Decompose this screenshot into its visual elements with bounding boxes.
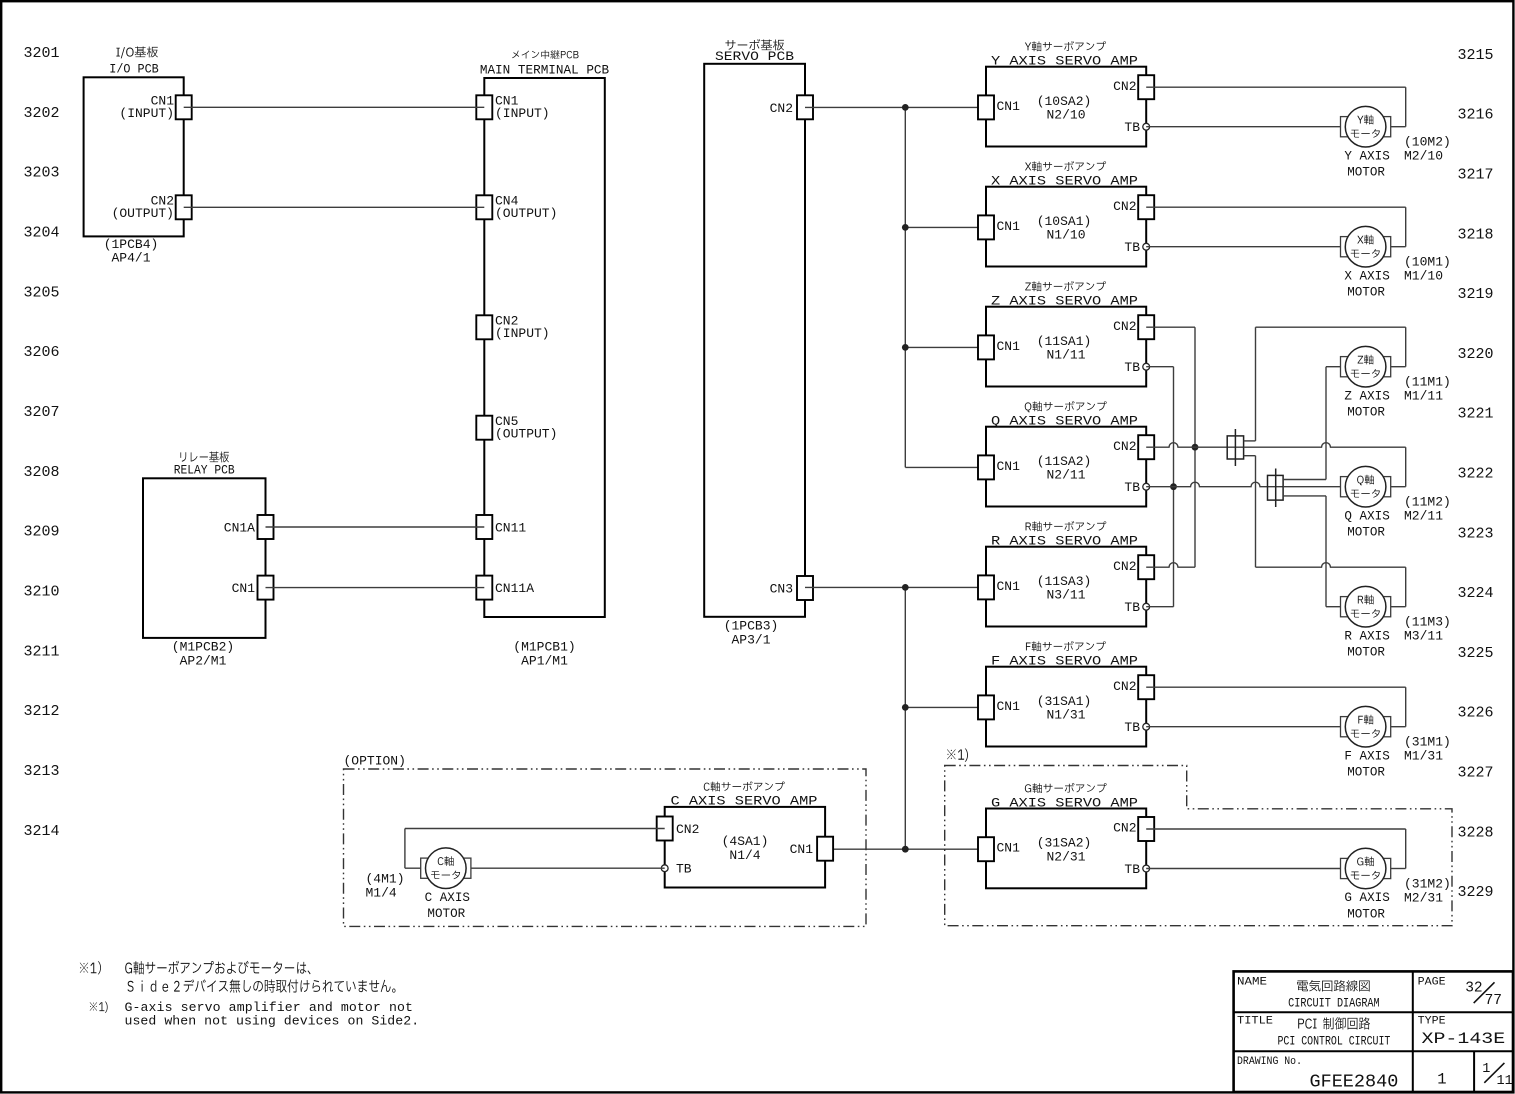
- svg-text:(31SA2): (31SA2): [1037, 836, 1092, 851]
- svg-text:G AXIS: G AXIS: [1344, 891, 1389, 905]
- svg-text:F AXIS: F AXIS: [1344, 749, 1389, 763]
- connector CN1 (Z amp): [978, 335, 1020, 359]
- servo amp F (F AXIS SERVO AMP (31SA1)): [986, 641, 1146, 746]
- svg-text:(11SA3): (11SA3): [1037, 574, 1092, 589]
- svg-text:CN1: CN1: [997, 699, 1021, 714]
- svg-text:3213: 3213: [23, 763, 59, 780]
- svg-text:(10M1): (10M1): [1404, 255, 1451, 270]
- title block DRAWING cell: [1237, 1056, 1398, 1093]
- wire Z CN2 to vertical V2: [1146, 326, 1195, 328]
- svg-text:Z AXIS: Z AXIS: [1344, 389, 1389, 403]
- option dash-dot boundary box: [344, 769, 867, 926]
- svg-text:M3/11: M3/11: [1404, 629, 1443, 644]
- wire Q CN2 continuation to rail: [1244, 443, 1406, 447]
- svg-text:CN1: CN1: [790, 842, 814, 857]
- wire V3 top to rail (Z motor feed): [1256, 326, 1406, 328]
- svg-text:(10SA2): (10SA2): [1037, 94, 1092, 109]
- svg-text:(M1PCB1): (M1PCB1): [513, 640, 575, 655]
- svg-text:XP-143E: XP-143E: [1422, 1030, 1506, 1048]
- svg-text:R AXIS: R AXIS: [1344, 629, 1389, 643]
- connector CN1 (I/O PCB, INPUT): [119, 94, 191, 122]
- wire bus to X amp CN1: [905, 226, 986, 228]
- svg-text:MOTOR: MOTOR: [1347, 766, 1385, 780]
- motor R (R AXIS MOTOR (11M3)): [1341, 586, 1451, 659]
- motor F (F AXIS MOTOR (31M1)): [1341, 706, 1451, 779]
- servo amp Y (Y AXIS SERVO AMP (10SA2)): [986, 41, 1146, 146]
- svg-text:(INPUT): (INPUT): [495, 326, 550, 341]
- svg-text:RELAY PCB: RELAY PCB: [174, 463, 235, 478]
- MAIN TERMINAL PCB block (M1PCB1 AP1/M1): [480, 50, 609, 668]
- wire R CN2 to vertical V2: [1146, 563, 1195, 568]
- svg-text:GFEE2840: GFEE2840: [1309, 1072, 1398, 1093]
- wire V4 to Z motor left: [1326, 366, 1341, 368]
- wire V3 bottom to rail (R motor feed): [1256, 563, 1406, 568]
- wire CP1 top tap to V3: [1244, 440, 1256, 442]
- vertical V4 lower (to R motor left): [1325, 496, 1327, 607]
- svg-text:3221: 3221: [1457, 406, 1493, 423]
- motor X (X AXIS MOTOR (10M1)): [1341, 226, 1451, 299]
- svg-text:G AXIS SERVO AMP: G AXIS SERVO AMP: [991, 795, 1138, 810]
- svg-text:M1/10: M1/10: [1404, 269, 1443, 284]
- svg-text:MAIN TERMINAL PCB: MAIN TERMINAL PCB: [480, 62, 609, 77]
- connector CN1 (MAIN PCB, INPUT): [476, 94, 549, 122]
- title block NAME cell: [1237, 976, 1380, 1010]
- svg-text:(OPTION): (OPTION): [344, 754, 406, 769]
- svg-text:CN3: CN3: [770, 582, 793, 597]
- wire I/O CN2 to MAIN CN4: [184, 206, 485, 208]
- svg-text:3219: 3219: [1457, 286, 1493, 303]
- svg-text:MOTOR: MOTOR: [1347, 406, 1385, 420]
- wire Q TB to connector CP2: [1146, 482, 1283, 487]
- svg-text:3205: 3205: [23, 284, 59, 301]
- wire X TB to X motor (left side): [1146, 246, 1340, 248]
- title block TITLE cell: [1237, 1015, 1390, 1048]
- terminal TB (C amp): [661, 862, 692, 877]
- terminal TB (R amp): [1124, 600, 1149, 615]
- wire F CN2 to F motor (right side): [1146, 687, 1406, 727]
- junction at R CN1 row: [902, 584, 909, 591]
- connector CN2 (I/O PCB, OUTPUT): [112, 194, 192, 222]
- svg-text:C AXIS: C AXIS: [425, 891, 470, 905]
- svg-text:F AXIS SERVO AMP: F AXIS SERVO AMP: [991, 654, 1138, 669]
- svg-text:(4M1): (4M1): [366, 871, 405, 886]
- svg-text:TB: TB: [1124, 120, 1140, 135]
- svg-text:3220: 3220: [1457, 346, 1493, 363]
- terminal TB (Y amp): [1124, 120, 1149, 135]
- svg-text:3222: 3222: [1457, 466, 1493, 483]
- junction V1 at Q TB row: [1170, 483, 1177, 490]
- svg-text:TB: TB: [1124, 480, 1140, 495]
- connector CN11A (MAIN PCB): [476, 576, 534, 600]
- motor Q (Q AXIS MOTOR (11M2)): [1341, 466, 1451, 539]
- wire F TB to F motor (left side): [1146, 726, 1340, 728]
- svg-text:3226: 3226: [1457, 705, 1493, 722]
- title block frame: [1234, 971, 1513, 1092]
- motor Z (Z AXIS MOTOR (11M1)): [1341, 346, 1451, 419]
- svg-text:CIRCUIT DIAGRAM: CIRCUIT DIAGRAM: [1288, 995, 1380, 1010]
- svg-text:CN1: CN1: [997, 841, 1021, 856]
- junction at G CN1 row: [902, 846, 909, 853]
- connector CN2 (G amp): [1113, 817, 1154, 841]
- junction V2 at Q CN2 row: [1192, 444, 1199, 451]
- svg-text:MOTOR: MOTOR: [1347, 286, 1385, 300]
- vertical V3 upper (to Z motor feed): [1255, 327, 1257, 441]
- svg-text:1: 1: [1482, 1062, 1490, 1077]
- svg-text:MOTOR: MOTOR: [1347, 526, 1385, 540]
- wire R TB to vertical V1: [1146, 606, 1173, 608]
- wire Q CN2 to connector CP1: [1146, 443, 1243, 447]
- vertical V4 upper (to Z motor left): [1325, 367, 1327, 480]
- motor C labels: [366, 871, 405, 900]
- svg-text:3202: 3202: [23, 105, 59, 122]
- svg-text:N1/4: N1/4: [729, 848, 760, 863]
- wire Y TB to Y motor (left side): [1146, 126, 1340, 128]
- connector CN4 (MAIN PCB, OUTPUT): [476, 194, 557, 222]
- connector CN2 (SERVO PCB): [770, 95, 813, 119]
- note line 3 (EN): [90, 1000, 413, 1015]
- svg-text:CN11: CN11: [495, 521, 526, 536]
- svg-text:CN2: CN2: [1113, 439, 1136, 454]
- wire C TB to C motor right: [471, 867, 665, 869]
- servo amp X (X AXIS SERVO AMP (10SA1)): [986, 161, 1146, 266]
- svg-text:Y AXIS: Y AXIS: [1344, 149, 1389, 163]
- svg-text:CN2: CN2: [1113, 319, 1136, 334]
- svg-text:(INPUT): (INPUT): [119, 106, 174, 121]
- svg-text:3209: 3209: [23, 524, 59, 541]
- svg-text:N2/10: N2/10: [1046, 108, 1085, 123]
- wire Z TB to vertical V1: [1146, 366, 1173, 368]
- note line 1 (JP): [80, 961, 311, 975]
- svg-text:TITLE: TITLE: [1237, 1015, 1273, 1027]
- wire G TB to G motor (left side): [1146, 868, 1340, 870]
- SERVO PCB block (1PCB3 AP3/1): [704, 39, 805, 647]
- (OPTION) label: [344, 754, 406, 769]
- svg-text:CN1: CN1: [997, 579, 1021, 594]
- drop to Q motor right: [1391, 447, 1406, 487]
- svg-text:11: 11: [1497, 1074, 1513, 1089]
- wire RELAY CN1 to MAIN CN11A: [266, 587, 485, 589]
- svg-text:(10SA1): (10SA1): [1037, 214, 1092, 229]
- svg-text:TB: TB: [1124, 862, 1140, 877]
- bus vertical (servo CN2 feed): [904, 107, 906, 467]
- svg-text:(11SA2): (11SA2): [1037, 454, 1092, 469]
- svg-text:77: 77: [1485, 993, 1502, 1009]
- connector CN2 (F amp): [1113, 675, 1154, 699]
- svg-text:M1/31: M1/31: [1404, 749, 1443, 764]
- svg-text:(OUTPUT): (OUTPUT): [495, 206, 557, 221]
- inline connector CP1: [1227, 429, 1243, 466]
- wire SERVO CN2 to Y amp CN1: [805, 106, 986, 108]
- connector CN1 (RELAY PCB): [232, 576, 274, 600]
- svg-text:AP2/M1: AP2/M1: [180, 653, 227, 668]
- servo amp C (C AXIS SERVO AMP 4SA1): [665, 781, 825, 887]
- svg-text:3229: 3229: [1457, 884, 1493, 901]
- svg-text:TB: TB: [676, 862, 692, 877]
- svg-text:I/O PCB: I/O PCB: [109, 61, 159, 76]
- svg-text:(11M2): (11M2): [1404, 495, 1451, 510]
- svg-text:TB: TB: [1124, 600, 1140, 615]
- connector CN1 (F amp): [978, 695, 1020, 719]
- connector CN1 (C amp): [790, 837, 834, 861]
- svg-text:3214: 3214: [23, 823, 59, 840]
- svg-text:(10M2): (10M2): [1404, 135, 1451, 150]
- svg-text:AP3/1: AP3/1: [731, 632, 770, 647]
- svg-text:CN2: CN2: [770, 101, 793, 116]
- svg-text:(1PCB3): (1PCB3): [724, 619, 779, 634]
- wire bus to F amp CN1: [905, 706, 986, 708]
- connector CN2 (MAIN PCB, INPUT): [476, 314, 549, 342]
- svg-text:(11SA1): (11SA1): [1037, 334, 1092, 349]
- svg-text:32: 32: [1465, 981, 1482, 997]
- connector CN1A (RELAY PCB): [224, 515, 274, 539]
- svg-text:3223: 3223: [1457, 525, 1493, 542]
- svg-text:AP4/1: AP4/1: [111, 251, 150, 266]
- junction at Y CN1 row: [902, 104, 909, 111]
- svg-text:(M1PCB2): (M1PCB2): [172, 640, 234, 655]
- svg-text:CN1A: CN1A: [224, 521, 255, 536]
- svg-text:(1PCB4): (1PCB4): [104, 237, 159, 252]
- svg-text:MOTOR: MOTOR: [1347, 907, 1385, 921]
- wire C amp CN1 to G amp CN1: [825, 848, 986, 850]
- svg-text:X AXIS SERVO AMP: X AXIS SERVO AMP: [991, 174, 1138, 189]
- drop to Z motor right: [1391, 327, 1406, 367]
- svg-text:N2/31: N2/31: [1046, 850, 1085, 865]
- svg-text:M1/4: M1/4: [366, 886, 397, 901]
- junction at F CN1 row: [902, 704, 909, 711]
- svg-text:3227: 3227: [1457, 765, 1493, 782]
- svg-text:3217: 3217: [1457, 167, 1493, 184]
- svg-text:CN1: CN1: [997, 339, 1021, 354]
- svg-text:3206: 3206: [23, 344, 59, 361]
- connector CN2 (Q amp): [1113, 435, 1154, 459]
- svg-text:C AXIS SERVO AMP: C AXIS SERVO AMP: [671, 794, 818, 809]
- svg-text:Q AXIS: Q AXIS: [1344, 509, 1389, 523]
- connector CN2 (X amp): [1113, 195, 1154, 219]
- servo amp Q (Q AXIS SERVO AMP (11SA2)): [986, 401, 1146, 506]
- svg-text:3228: 3228: [1457, 824, 1493, 841]
- connector CN2 (Y amp): [1113, 75, 1154, 99]
- svg-text:(11M1): (11M1): [1404, 375, 1451, 390]
- connector CN1 (R amp): [978, 575, 1020, 599]
- connector CN1 (X amp): [978, 215, 1020, 239]
- svg-text:3216: 3216: [1457, 107, 1493, 124]
- junction at Z CN1 row: [902, 344, 909, 351]
- wire CP1 bottom tap to V3: [1244, 455, 1256, 457]
- svg-text:MOTOR: MOTOR: [1347, 166, 1385, 180]
- terminal TB (F amp): [1124, 720, 1149, 735]
- wire CP2 bottom tap to V4: [1283, 495, 1326, 497]
- svg-text:PAGE: PAGE: [1418, 976, 1446, 988]
- svg-text:(11M3): (11M3): [1404, 615, 1451, 630]
- RELAY PCB block (M1PCB2 AP2/M1): [143, 451, 266, 668]
- svg-text:AP1/M1: AP1/M1: [521, 653, 568, 668]
- svg-text:TB: TB: [1124, 360, 1140, 375]
- svg-text:3224: 3224: [1457, 585, 1493, 602]
- svg-text:M2/10: M2/10: [1404, 149, 1443, 164]
- svg-text:CN1: CN1: [997, 219, 1021, 234]
- svg-text:CN2: CN2: [1113, 821, 1136, 836]
- svg-text:3210: 3210: [23, 584, 59, 601]
- svg-text:3207: 3207: [23, 404, 59, 421]
- svg-text:M2/11: M2/11: [1404, 509, 1443, 524]
- connector CN1 (Q amp): [978, 455, 1020, 479]
- svg-text:1: 1: [1437, 1071, 1446, 1089]
- right margin line numbers 3215-3229: [1457, 47, 1493, 901]
- wire CP2 to Q motor left: [1283, 486, 1340, 488]
- connector CN2 (C amp): [657, 817, 700, 841]
- svg-text:NAME: NAME: [1237, 976, 1267, 988]
- svg-text:used when not using devices on: used when not using devices on Side2.: [125, 1014, 420, 1029]
- svg-text:PCI CONTROL CIRCUIT: PCI CONTROL CIRCUIT: [1277, 1033, 1390, 1048]
- inline connector CP2: [1268, 469, 1284, 508]
- svg-text:CN1: CN1: [997, 99, 1021, 114]
- note mark for G box: [947, 749, 968, 762]
- svg-text:(31M1): (31M1): [1404, 735, 1451, 750]
- wire I/O CN1 to MAIN CN1: [184, 106, 485, 108]
- servo amp Z (Z AXIS SERVO AMP (11SA1)): [986, 281, 1146, 386]
- svg-text:R AXIS SERVO AMP: R AXIS SERVO AMP: [991, 534, 1138, 549]
- wire V4 to R motor left: [1326, 606, 1341, 608]
- svg-text:N3/11: N3/11: [1046, 588, 1085, 603]
- svg-text:Y AXIS SERVO AMP: Y AXIS SERVO AMP: [991, 54, 1138, 69]
- title block sheet number cells: [1437, 1062, 1512, 1089]
- motor Y (Y AXIS MOTOR (10M2)): [1341, 106, 1451, 179]
- wire SERVO CN3 to R amp CN1: [805, 586, 986, 588]
- svg-text:DRAWING No.: DRAWING No.: [1237, 1056, 1302, 1068]
- svg-text:CN2: CN2: [1113, 679, 1136, 694]
- svg-text:3215: 3215: [1457, 47, 1493, 64]
- svg-text:N2/11: N2/11: [1046, 468, 1085, 483]
- svg-text:(OUTPUT): (OUTPUT): [112, 206, 174, 221]
- svg-text:CN1: CN1: [232, 581, 256, 596]
- svg-text:MOTOR: MOTOR: [1347, 646, 1385, 660]
- servo amp G (G AXIS SERVO AMP (31SA2)): [986, 783, 1146, 888]
- svg-text:3211: 3211: [23, 643, 59, 660]
- svg-text:N1/11: N1/11: [1046, 348, 1085, 363]
- wire bus to Z amp CN1: [905, 346, 986, 348]
- I/O PCB block (1PCB4 AP4/1): [84, 46, 184, 265]
- wire G CN2 to G motor (right side): [1146, 829, 1406, 869]
- svg-text:SERVO PCB: SERVO PCB: [715, 49, 794, 64]
- connector CN2 (Z amp): [1113, 315, 1154, 339]
- junction at X CN1 row: [902, 224, 909, 231]
- svg-text:CN2: CN2: [1113, 199, 1136, 214]
- svg-text:3208: 3208: [23, 464, 59, 481]
- svg-text:CN1: CN1: [997, 459, 1021, 474]
- svg-text:Q AXIS SERVO AMP: Q AXIS SERVO AMP: [991, 414, 1138, 429]
- svg-text:Z AXIS SERVO AMP: Z AXIS SERVO AMP: [991, 294, 1138, 309]
- title block TYPE cell: [1418, 1015, 1506, 1048]
- connector CN11 (MAIN PCB): [476, 515, 526, 539]
- svg-text:3201: 3201: [23, 45, 59, 62]
- wire C CN2 to C motor (left loop): [405, 829, 665, 869]
- svg-text:CN2: CN2: [1113, 79, 1136, 94]
- svg-text:M2/31: M2/31: [1404, 891, 1443, 906]
- left margin line numbers 3201-3214: [23, 45, 59, 840]
- connector CN5 (MAIN PCB, OUTPUT): [476, 414, 557, 442]
- bus vertical (servo CN3 feed): [904, 587, 906, 849]
- svg-text:(31SA1): (31SA1): [1037, 694, 1092, 709]
- wire RELAY CN1A to MAIN CN11: [266, 526, 485, 528]
- svg-text:3218: 3218: [1457, 226, 1493, 243]
- svg-text:N1/31: N1/31: [1046, 708, 1085, 723]
- svg-text:3212: 3212: [23, 703, 59, 720]
- note line 4 (EN): [125, 1014, 420, 1029]
- vertical V1 (Z TB to R TB): [1173, 367, 1175, 607]
- terminal TB (G amp): [1124, 862, 1149, 877]
- svg-text:N1/10: N1/10: [1046, 228, 1085, 243]
- servo amp R (R AXIS SERVO AMP (11SA3)): [986, 521, 1146, 626]
- title block PAGE cell: [1418, 976, 1502, 1009]
- svg-text:TB: TB: [1124, 240, 1140, 255]
- svg-text:X AXIS: X AXIS: [1344, 269, 1389, 283]
- connector CN1 (Y amp): [978, 95, 1020, 119]
- svg-text:MOTOR: MOTOR: [427, 907, 465, 921]
- svg-text:3225: 3225: [1457, 645, 1493, 662]
- vertical V2 (Z CN2 to R CN2): [1194, 327, 1196, 567]
- drop to R motor right: [1391, 567, 1406, 607]
- svg-text:3204: 3204: [23, 225, 59, 242]
- svg-text:CN2: CN2: [1113, 559, 1136, 574]
- connector CN2 (R amp): [1113, 555, 1154, 579]
- terminal TB (Q amp): [1124, 480, 1149, 495]
- svg-text:(INPUT): (INPUT): [495, 106, 550, 121]
- svg-text:3203: 3203: [23, 165, 59, 182]
- wire X CN2 to X motor (right side): [1146, 207, 1406, 247]
- motor C (C AXIS MOTOR 4M1): [421, 848, 471, 921]
- svg-text:M1/11: M1/11: [1404, 389, 1443, 404]
- svg-text:CN2: CN2: [676, 822, 699, 837]
- vertical V3 lower (to R motor feed): [1255, 456, 1257, 568]
- svg-text:(OUTPUT): (OUTPUT): [495, 426, 557, 441]
- terminal TB (Z amp): [1124, 360, 1149, 375]
- wire Y CN2 to Y motor (right side): [1146, 87, 1406, 127]
- terminal TB (X amp): [1124, 240, 1149, 255]
- wire CP2 top tap to V4: [1283, 479, 1326, 481]
- svg-text:TYPE: TYPE: [1418, 1015, 1446, 1027]
- connector CN1 (G amp): [978, 837, 1020, 861]
- svg-text:(4SA1): (4SA1): [722, 834, 769, 849]
- svg-text:CN11A: CN11A: [495, 581, 534, 596]
- svg-text:(31M2): (31M2): [1404, 876, 1451, 891]
- motor G (G AXIS MOTOR (31M2)): [1341, 848, 1451, 921]
- G-axis dash-dot boundary box: [945, 766, 1452, 926]
- note line 2 (JP): [127, 979, 395, 992]
- svg-text:TB: TB: [1124, 720, 1140, 735]
- connector CN3 (SERVO PCB): [770, 576, 813, 600]
- wire bus to Q amp CN1: [905, 466, 986, 468]
